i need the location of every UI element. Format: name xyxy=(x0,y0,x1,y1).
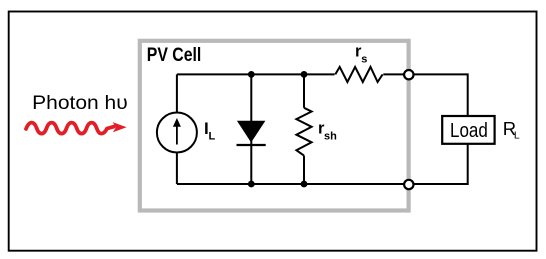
photon red squiggle arrow xyxy=(26,122,127,134)
wire: top rail from current source to series resistor xyxy=(177,73,335,75)
junction dot top shunt xyxy=(301,71,308,78)
svg-text:Load: Load xyxy=(450,120,488,142)
junction dot bottom diode xyxy=(248,181,255,188)
wire: shunt branch top stub xyxy=(303,74,305,107)
wire: left branch vertical (current source) xyxy=(176,74,178,184)
terminal node top (open circle) xyxy=(404,70,413,79)
circuit wires (black) xyxy=(177,67,468,184)
arrowhead of photon xyxy=(113,122,127,132)
resistor r_sh (shunt, vertical zigzag) xyxy=(296,108,311,156)
svg-text:sh: sh xyxy=(324,131,337,143)
wire: diode branch vertical xyxy=(250,74,252,184)
wire: from r_s to top terminal and to load top xyxy=(383,74,467,116)
svg-text:s: s xyxy=(361,54,367,66)
current source I_L (circle with up arrow) xyxy=(157,113,197,153)
load box xyxy=(442,116,494,144)
wire: bottom rail to load xyxy=(177,144,468,184)
svg-text:Photon hυ: Photon hυ xyxy=(32,93,128,114)
junction dot bottom shunt xyxy=(301,181,308,188)
terminal node bottom (open circle) xyxy=(404,180,413,189)
sine wave xyxy=(26,123,114,134)
svg-text:PV Cell: PV Cell xyxy=(147,44,202,66)
svg-text:L: L xyxy=(209,131,216,143)
svg-text:L: L xyxy=(514,130,520,142)
resistor r_s (series, horizontal zigzag) xyxy=(335,67,382,82)
PV Cell dashed/gray enclosure box xyxy=(140,41,409,211)
junction dot top diode xyxy=(248,71,255,78)
diode D (filled triangle + bar) xyxy=(237,121,266,145)
wire: shunt branch bottom stub xyxy=(303,156,305,184)
